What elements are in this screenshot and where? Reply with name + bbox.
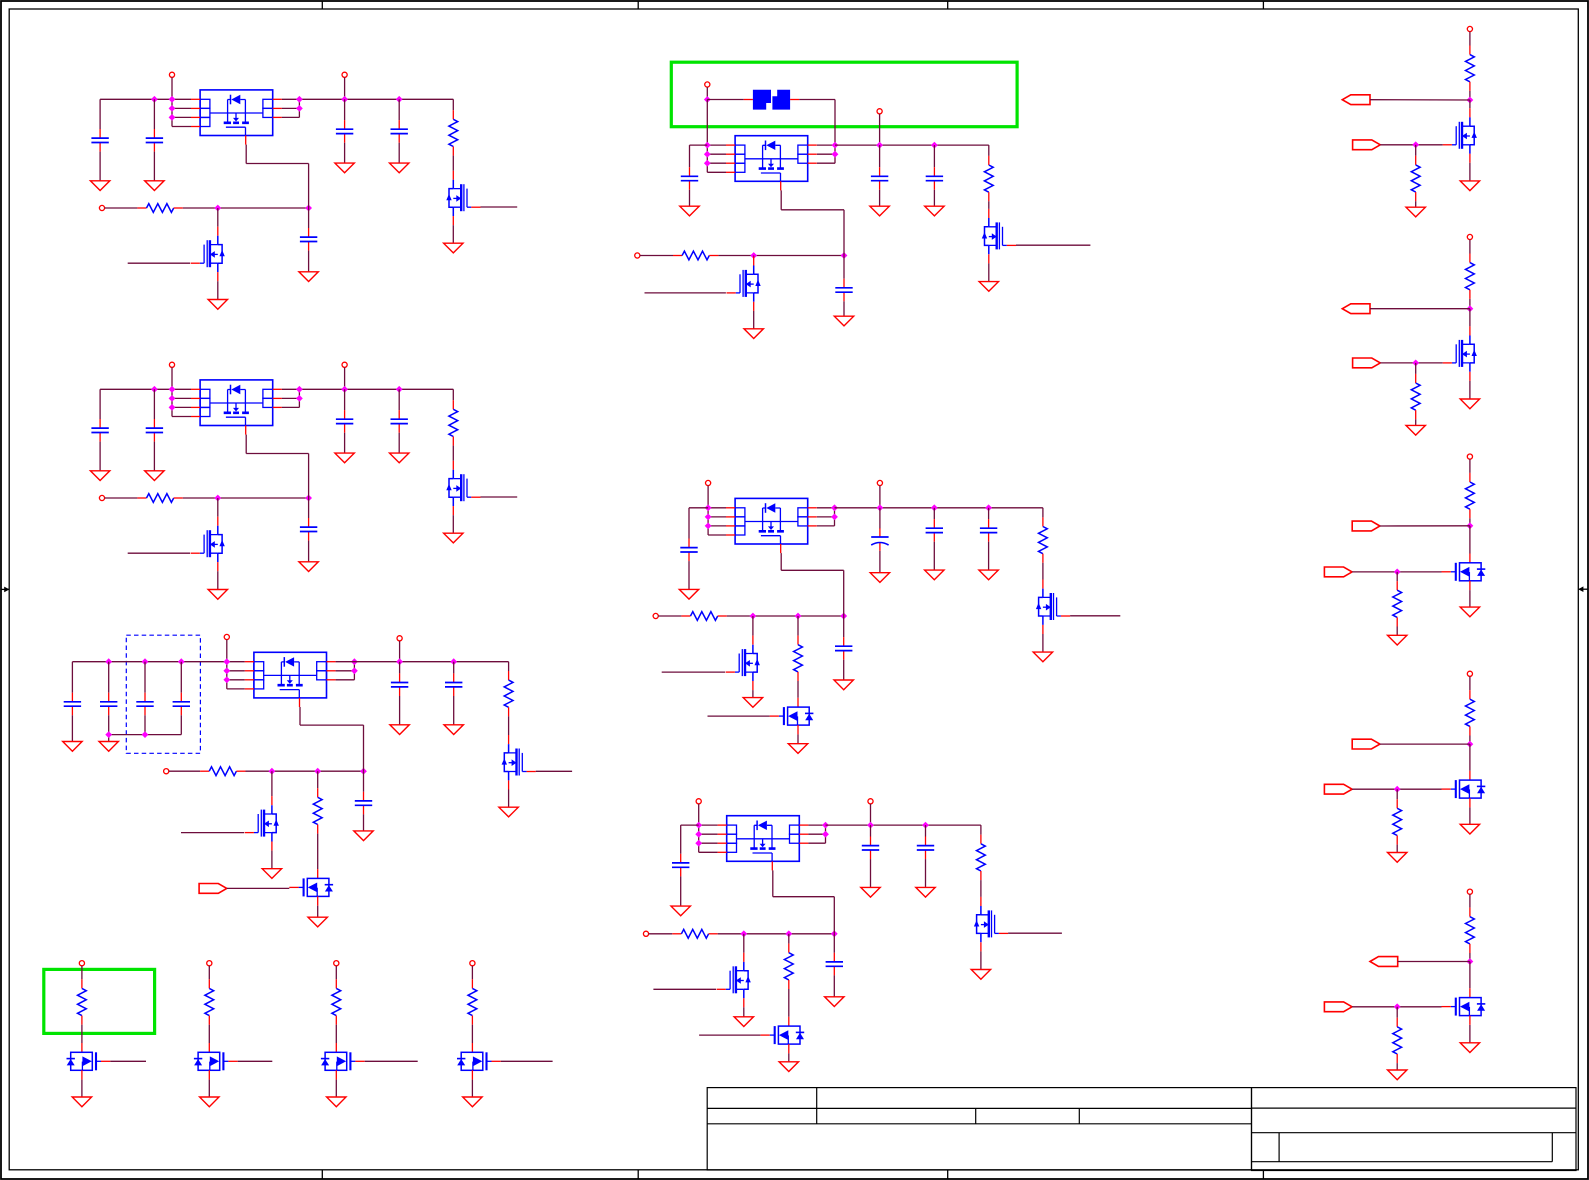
ground Q32 source (262, 869, 281, 879)
junction gate pulldown 3 (1394, 569, 1401, 576)
power terminal VOUT3 (397, 636, 402, 641)
capacitor C33 (input) (136, 693, 153, 716)
ground pulldown 5 (1388, 1070, 1407, 1080)
ground enable cap (354, 831, 373, 841)
wire enable net (183, 497, 309, 499)
junction VIN bus row1 (704, 142, 711, 149)
wire input top rail (72, 661, 244, 663)
wire rail to pull-up resistor (1042, 508, 1044, 518)
resistor RR4b (pulldown) (1393, 799, 1402, 844)
junction VIN bus row2 (705, 514, 712, 521)
wire IC bottom pin down (772, 870, 774, 896)
wire Q31 source to ground (508, 790, 510, 808)
resistor R11 (pull-up) (449, 110, 458, 155)
wire Q61 source to ground (980, 951, 982, 969)
junction VIN bus row3 (169, 114, 176, 121)
resistor R51 (pull-up) (1039, 517, 1048, 562)
junction output cap B (450, 658, 457, 665)
title block right table outline (1252, 1088, 1577, 1171)
wire IC bottom pin down (780, 190, 782, 209)
junction enable to cap (831, 930, 838, 937)
wire enable net (183, 207, 309, 209)
wire Q1 gate lead out (481, 206, 518, 208)
wire VIN terminal stub (171, 77, 173, 99)
capacitor C43 (output) (926, 167, 943, 190)
capacitor C52 (bulk polarized) (871, 528, 888, 551)
junction VIN bus row3 (223, 676, 230, 683)
junction enable to feedback cap (305, 495, 312, 502)
terminal PWR1 (79, 961, 84, 966)
wire pin 5 to bus (817, 525, 835, 527)
transistor QR5 (1442, 988, 1486, 1025)
terminal EN3 (164, 769, 169, 774)
wire QR1 source to ground (1469, 163, 1471, 181)
power terminal VIN5 (706, 480, 711, 485)
resistor RR1b (pulldown) (1411, 156, 1420, 201)
ground QD2 (200, 1097, 219, 1107)
wire IC bottom pin down (245, 145, 247, 164)
capacitor C61 (input) (672, 854, 689, 877)
junction VIN fuse tap (704, 96, 711, 103)
junction input cap 2 (151, 386, 158, 393)
wire enable cap lead (833, 934, 835, 953)
wire input cap tap (689, 507, 708, 509)
wire IN4 to QR4 gate (1352, 788, 1441, 790)
wire input cap lead (680, 825, 682, 854)
wire feedback cap to ground (308, 541, 310, 562)
resistor RR4 (pull-up) (1466, 690, 1475, 735)
green highlight box (driver 1) (44, 969, 155, 1033)
power terminal PR1 (1467, 26, 1472, 31)
wire bus to pin 2 (708, 516, 726, 518)
power terminal VIN1 (169, 72, 174, 77)
ground enable cap (299, 562, 318, 572)
transistor Q41 (982, 209, 1016, 264)
transistor Q33 (289, 869, 333, 906)
wire bus to pin 2 (172, 397, 191, 399)
wire pulldown to Q53 drain (797, 681, 799, 698)
ground output cap B (390, 163, 409, 173)
terminal PWR3 (334, 961, 339, 966)
wire QD2 source to ground (208, 1080, 210, 1097)
wire enable cap to ground (363, 814, 365, 831)
wire input cap 1 lead (99, 389, 101, 419)
wire output cap B to ground (453, 696, 455, 725)
wire resistor to QD4 drain (471, 1025, 473, 1043)
junction enable to cap (840, 613, 847, 620)
wire Q33 source to ground (317, 906, 319, 918)
wire bus to pin 1 (708, 507, 726, 509)
transistor Q31 (502, 735, 536, 790)
junction output bus row2 (296, 395, 303, 402)
wire Q32 source to ground (271, 851, 273, 869)
ground output cap A (335, 453, 354, 463)
resistor RD4 (468, 979, 477, 1024)
transistor Q61 (974, 897, 1008, 952)
junction input cap 2 (105, 658, 112, 665)
title block right table row line 2 (1252, 1132, 1577, 1134)
wire enable to Q32 drain (271, 771, 273, 796)
power terminal VOUT2 (342, 362, 347, 367)
ground Q61 source (971, 970, 990, 980)
junction input cap 4 (178, 658, 185, 665)
wire connector to Q33 gate (227, 887, 289, 889)
wire rail to pull-up resistor (980, 825, 982, 835)
wire bus to pin 3 (699, 842, 718, 844)
wire output cap A lead (344, 389, 346, 410)
wire output cap A to ground (879, 551, 881, 573)
connector arrow IN5 (1324, 1002, 1352, 1012)
load switch U4 (726, 136, 817, 191)
wire VOUT top rail (282, 388, 454, 390)
ground Q2 source (208, 300, 227, 310)
ground QR2 (1460, 399, 1479, 409)
wire output cap B lead (398, 99, 400, 120)
wire terminal to resistor 3 (335, 966, 337, 980)
power terminal PR4 (1467, 671, 1472, 676)
wire output pin bus (834, 508, 836, 526)
wire output top rail (336, 661, 509, 663)
capacitor C44 (enable) (835, 279, 852, 302)
junction input cap 2 (151, 96, 158, 103)
wire Q2 gate lead (128, 552, 190, 554)
load switch U2 (191, 380, 282, 435)
junction enable to Q2 drain (214, 205, 221, 212)
wire IN5 to QR5 gate (1352, 1006, 1441, 1008)
ground Q33 source (308, 917, 327, 927)
top border zone tick (321, 1, 323, 9)
ground QD1 (72, 1097, 91, 1107)
transistor Q22 (191, 517, 225, 572)
wire output cap A lead (879, 145, 881, 167)
terminal PWR4 (470, 961, 475, 966)
wire resistor to Q drain (980, 880, 982, 897)
wire pin 5 to output bus (336, 679, 355, 681)
wire resistor to node (1469, 953, 1471, 962)
wire pin 6 to bus (808, 833, 825, 835)
wire output top rail (826, 824, 981, 826)
wire Q2 source to ground (217, 281, 219, 299)
wire bus to pin 4 (172, 126, 191, 128)
ground output cap C (979, 570, 998, 580)
ground QR1 (1460, 181, 1479, 191)
wire Q2 gate lead (128, 262, 190, 264)
wire IC bottom pin down (245, 435, 247, 454)
wire node to connector OUT5 (1398, 961, 1470, 963)
wire pulldown to ground (1396, 1063, 1398, 1070)
capacitor C12 (input) (146, 129, 163, 152)
wire bus to pin 4 (699, 851, 718, 853)
resistor RR1 (pull-up) (1466, 46, 1475, 91)
ground pulldown 2 (1406, 425, 1425, 435)
top border zone tick (637, 1, 639, 9)
dashed optional-parts box (126, 635, 200, 753)
capacitor C53 (output) (926, 519, 943, 542)
bottom border zone tick (637, 1170, 639, 1179)
wire Q2 source to ground (217, 571, 219, 589)
wire enable cap lead (363, 771, 365, 792)
terminal PWR2 (207, 961, 212, 966)
junction output bus row1 (822, 822, 829, 829)
terminal EN4 (635, 253, 640, 258)
wire Q51 source to ground (1042, 634, 1044, 652)
ground input cap (680, 206, 699, 216)
junction drain node 2 (1467, 305, 1474, 312)
junction output cap A (396, 658, 403, 665)
wire pin 7 to bus (817, 144, 835, 146)
wire Q53 gate lead (708, 715, 770, 717)
connector arrow OUT5 (1370, 957, 1398, 967)
wire output cap B to ground (925, 859, 927, 887)
wire pin 6 to output bus (336, 670, 355, 672)
ground enable cap (834, 680, 853, 690)
transistor QR1 (1443, 108, 1477, 163)
capacitor C31 (input) (64, 693, 81, 716)
wire Q62 source to ground (743, 1007, 745, 1017)
wire IC bottom pin to enable net (363, 725, 365, 771)
wire QR4 source to ground (1469, 807, 1471, 824)
wire resistor to Q drain (988, 201, 990, 209)
junction VIN bus row3 (705, 523, 712, 530)
wire resistor to node (1469, 736, 1471, 745)
wire input cap 3 lead (144, 662, 146, 693)
wire terminal to resistor (1469, 676, 1471, 690)
resistor R22 (enable series) (137, 494, 182, 503)
resistor RR3b (pulldown) (1393, 581, 1402, 626)
terminal EN1 (99, 205, 104, 210)
wire pin 6 to output bus (282, 107, 300, 109)
wire gate to pulldown resistor (1415, 145, 1417, 156)
power terminal VOUT6 (868, 799, 873, 804)
wire IC bottom pin across (773, 896, 835, 898)
wire feedback cap lead (308, 498, 310, 518)
junction output cap B (396, 386, 403, 393)
wire terminal to resistor (1469, 32, 1471, 46)
wire bus to pin 1 (707, 144, 726, 146)
wire output cap A lead (879, 508, 881, 529)
wire output cap B lead (933, 508, 935, 519)
capacitor C15 (enable) (300, 228, 317, 251)
ground QR4 (1460, 824, 1479, 834)
wire QD2 gate lead out (238, 1060, 273, 1062)
capacitor C14 (output) (391, 120, 408, 143)
wire QR5 source to ground (1469, 1025, 1471, 1043)
title block right table inner cell right line (1551, 1133, 1553, 1162)
wire bus to pin 3 (172, 116, 191, 118)
power terminal VIN2 (169, 362, 174, 367)
wire VIN terminal and pin bus (698, 804, 700, 852)
transistor QR3 (1442, 554, 1486, 591)
bottom border zone tick (1262, 1170, 1264, 1179)
wire bus to pin 2 (227, 670, 245, 672)
wire resistor to QD3 drain (335, 1025, 337, 1043)
wire input cap 2 lead (108, 662, 110, 693)
junction output bus row1 (296, 96, 303, 103)
wire enable to Q52 drain (752, 616, 754, 636)
junction enable to Q42 (750, 252, 757, 259)
junction VIN bus row1 (705, 504, 712, 511)
ground output cap B (390, 453, 409, 463)
transistor Q53 (770, 698, 814, 735)
wire IC bottom pin down (299, 707, 301, 725)
capacitor C11 (input) (91, 129, 108, 152)
connector arrow IN3 (1324, 567, 1352, 577)
wire Q31 gate lead out (536, 770, 572, 772)
wire Q62 gate lead (653, 988, 716, 990)
junction gate pulldown 5 (1394, 1003, 1401, 1010)
connector arrow OUT4 (1352, 739, 1380, 749)
wire output pin bus (825, 825, 827, 843)
resistor R53 (pulldown) (794, 636, 803, 681)
wire Q1 source to ground (452, 515, 454, 533)
wire enable to Q42 drain (753, 255, 755, 258)
wire gate to pulldown resistor (1396, 572, 1398, 581)
wire input cap tap (681, 824, 699, 826)
wire VOUT terminal stub (399, 641, 401, 662)
wire fused rail down (834, 100, 836, 164)
capacitor C24 (output) (391, 410, 408, 433)
wire IN3 to QR3 gate (1352, 571, 1441, 573)
wire pulldown to ground (1415, 201, 1417, 207)
title block left table column line B (975, 1108, 977, 1123)
junction enable to cap (360, 768, 367, 775)
wire EN terminal to resistor (658, 615, 681, 617)
junction output bus row2 (296, 105, 303, 112)
capacitor C42 (output) (871, 167, 888, 190)
resistor RD1 (78, 979, 87, 1024)
green highlight box (fuse section) (671, 62, 1017, 127)
junction input cap 3 (142, 658, 149, 665)
power terminal VIN3 (224, 634, 229, 639)
ground input cap 1 (90, 181, 109, 191)
junction drain node 3 (1467, 522, 1474, 529)
wire resistor to node (1469, 299, 1471, 309)
connector arrow IN4 (1324, 784, 1352, 794)
ground output cap A (870, 206, 889, 216)
title block right table row line 1 (1252, 1107, 1577, 1109)
wire VIN to fuse (707, 99, 744, 101)
wire EN terminal to resistor (169, 770, 200, 772)
wire node to connector OUT4 (1380, 743, 1470, 745)
wire output cap C lead (988, 508, 990, 519)
wire VOUT terminal stub (879, 486, 881, 508)
resistor R32 (enable series) (200, 767, 245, 776)
load switch U5 (726, 498, 817, 553)
wire enable to pulldown resistor (788, 934, 790, 944)
transistor QR2 (1443, 326, 1477, 381)
right border centre arrow (1578, 586, 1587, 592)
wire pulldown to ground (1396, 627, 1398, 636)
capacitor C55 (enable) (835, 637, 852, 660)
wire VIN top rail (100, 388, 191, 390)
wire output cap A to ground (344, 143, 346, 163)
bottom border zone tick (947, 1170, 949, 1179)
connector arrow OUT3 (1352, 521, 1380, 531)
capacitor C25 (enable) (300, 518, 317, 541)
wire VIN terminal stub (226, 640, 228, 662)
ground Q31 source (499, 807, 518, 817)
wire IN1 to QR1 gate (1380, 144, 1442, 146)
wire pulldown to Q63 drain (788, 989, 790, 1017)
terminal EN5 (653, 613, 658, 618)
wire node to QR2 drain (1469, 309, 1471, 327)
resistor RR2b (pulldown) (1411, 374, 1420, 419)
ground Q51 source (1033, 652, 1052, 662)
wire VIN top rail (100, 98, 191, 100)
wire enable net (718, 255, 844, 257)
junction enable to pulldown (785, 930, 792, 937)
wire enable net (718, 933, 835, 935)
junction enable to Q32 (269, 768, 276, 775)
wire Q42 gate lead (645, 292, 726, 294)
capacitor C41 (input) (681, 167, 698, 190)
wire output cap C to ground (988, 542, 990, 570)
wire output cap B lead (453, 662, 455, 674)
wire QR3 source to ground (1469, 590, 1471, 607)
transistor Q52 (726, 636, 760, 691)
wire output cap A to ground (870, 859, 872, 887)
wire input cap tap (690, 144, 708, 146)
wire enable to Q62 drain (743, 934, 745, 953)
junction VIN bus row1 (169, 386, 176, 393)
wire pin 7 to bus (817, 507, 835, 509)
wire terminal to resistor 4 (471, 966, 473, 980)
capacitor C36 (output) (445, 673, 462, 696)
wire Q41 source to ground (988, 263, 990, 281)
wire output pin bus (298, 99, 300, 117)
junction output cap B (931, 504, 938, 511)
junction return rail cap2 (105, 731, 112, 738)
wire bus to pin 4 (708, 534, 726, 536)
wire IC bottom pin across (781, 569, 844, 571)
power terminal VOUT1 (342, 72, 347, 77)
ground Q1 source (444, 533, 463, 543)
ground Q62 source (734, 1017, 753, 1027)
resistor R62 (enable series) (672, 929, 717, 938)
wire Q52 gate lead (662, 671, 725, 673)
junction output cap A (876, 142, 883, 149)
top border zone tick (1262, 1, 1264, 9)
ground input cap 1 (90, 471, 109, 481)
title block left table column line A (816, 1088, 818, 1124)
power terminal VOUT4 (877, 109, 882, 114)
wire Q32 gate lead (181, 832, 244, 834)
wire enable to Q2 (217, 208, 219, 227)
wire VIN terminal stub (706, 87, 708, 99)
wire VOUT terminal stub (870, 804, 872, 825)
junction enable to Q2 drain (214, 495, 221, 502)
ground output cap B (925, 570, 944, 580)
ground output cap B (925, 206, 944, 216)
resistor RR2 (pull-up) (1466, 254, 1475, 299)
wire resistor to node (1469, 518, 1471, 526)
wire input cap 1 lead (71, 662, 73, 693)
load switch U3 (245, 652, 336, 707)
wire terminal to resistor 2 (208, 966, 210, 980)
ground Q52 source (743, 698, 762, 708)
wire Q41 gate lead out (1016, 244, 1090, 246)
title block left table outline (707, 1088, 1251, 1170)
wire bus to pin 4 (172, 416, 191, 418)
wire input cap 2 to ground (108, 715, 110, 741)
wire input cap 3 return (144, 715, 146, 734)
junction VIN bus row3 (695, 840, 702, 847)
wire output cap B to ground (398, 143, 400, 163)
ground pulldown 3 (1388, 635, 1407, 645)
wire VOUT terminal stub (344, 77, 346, 99)
wire enable cap to ground (833, 975, 835, 996)
load switch U6 (718, 816, 809, 871)
